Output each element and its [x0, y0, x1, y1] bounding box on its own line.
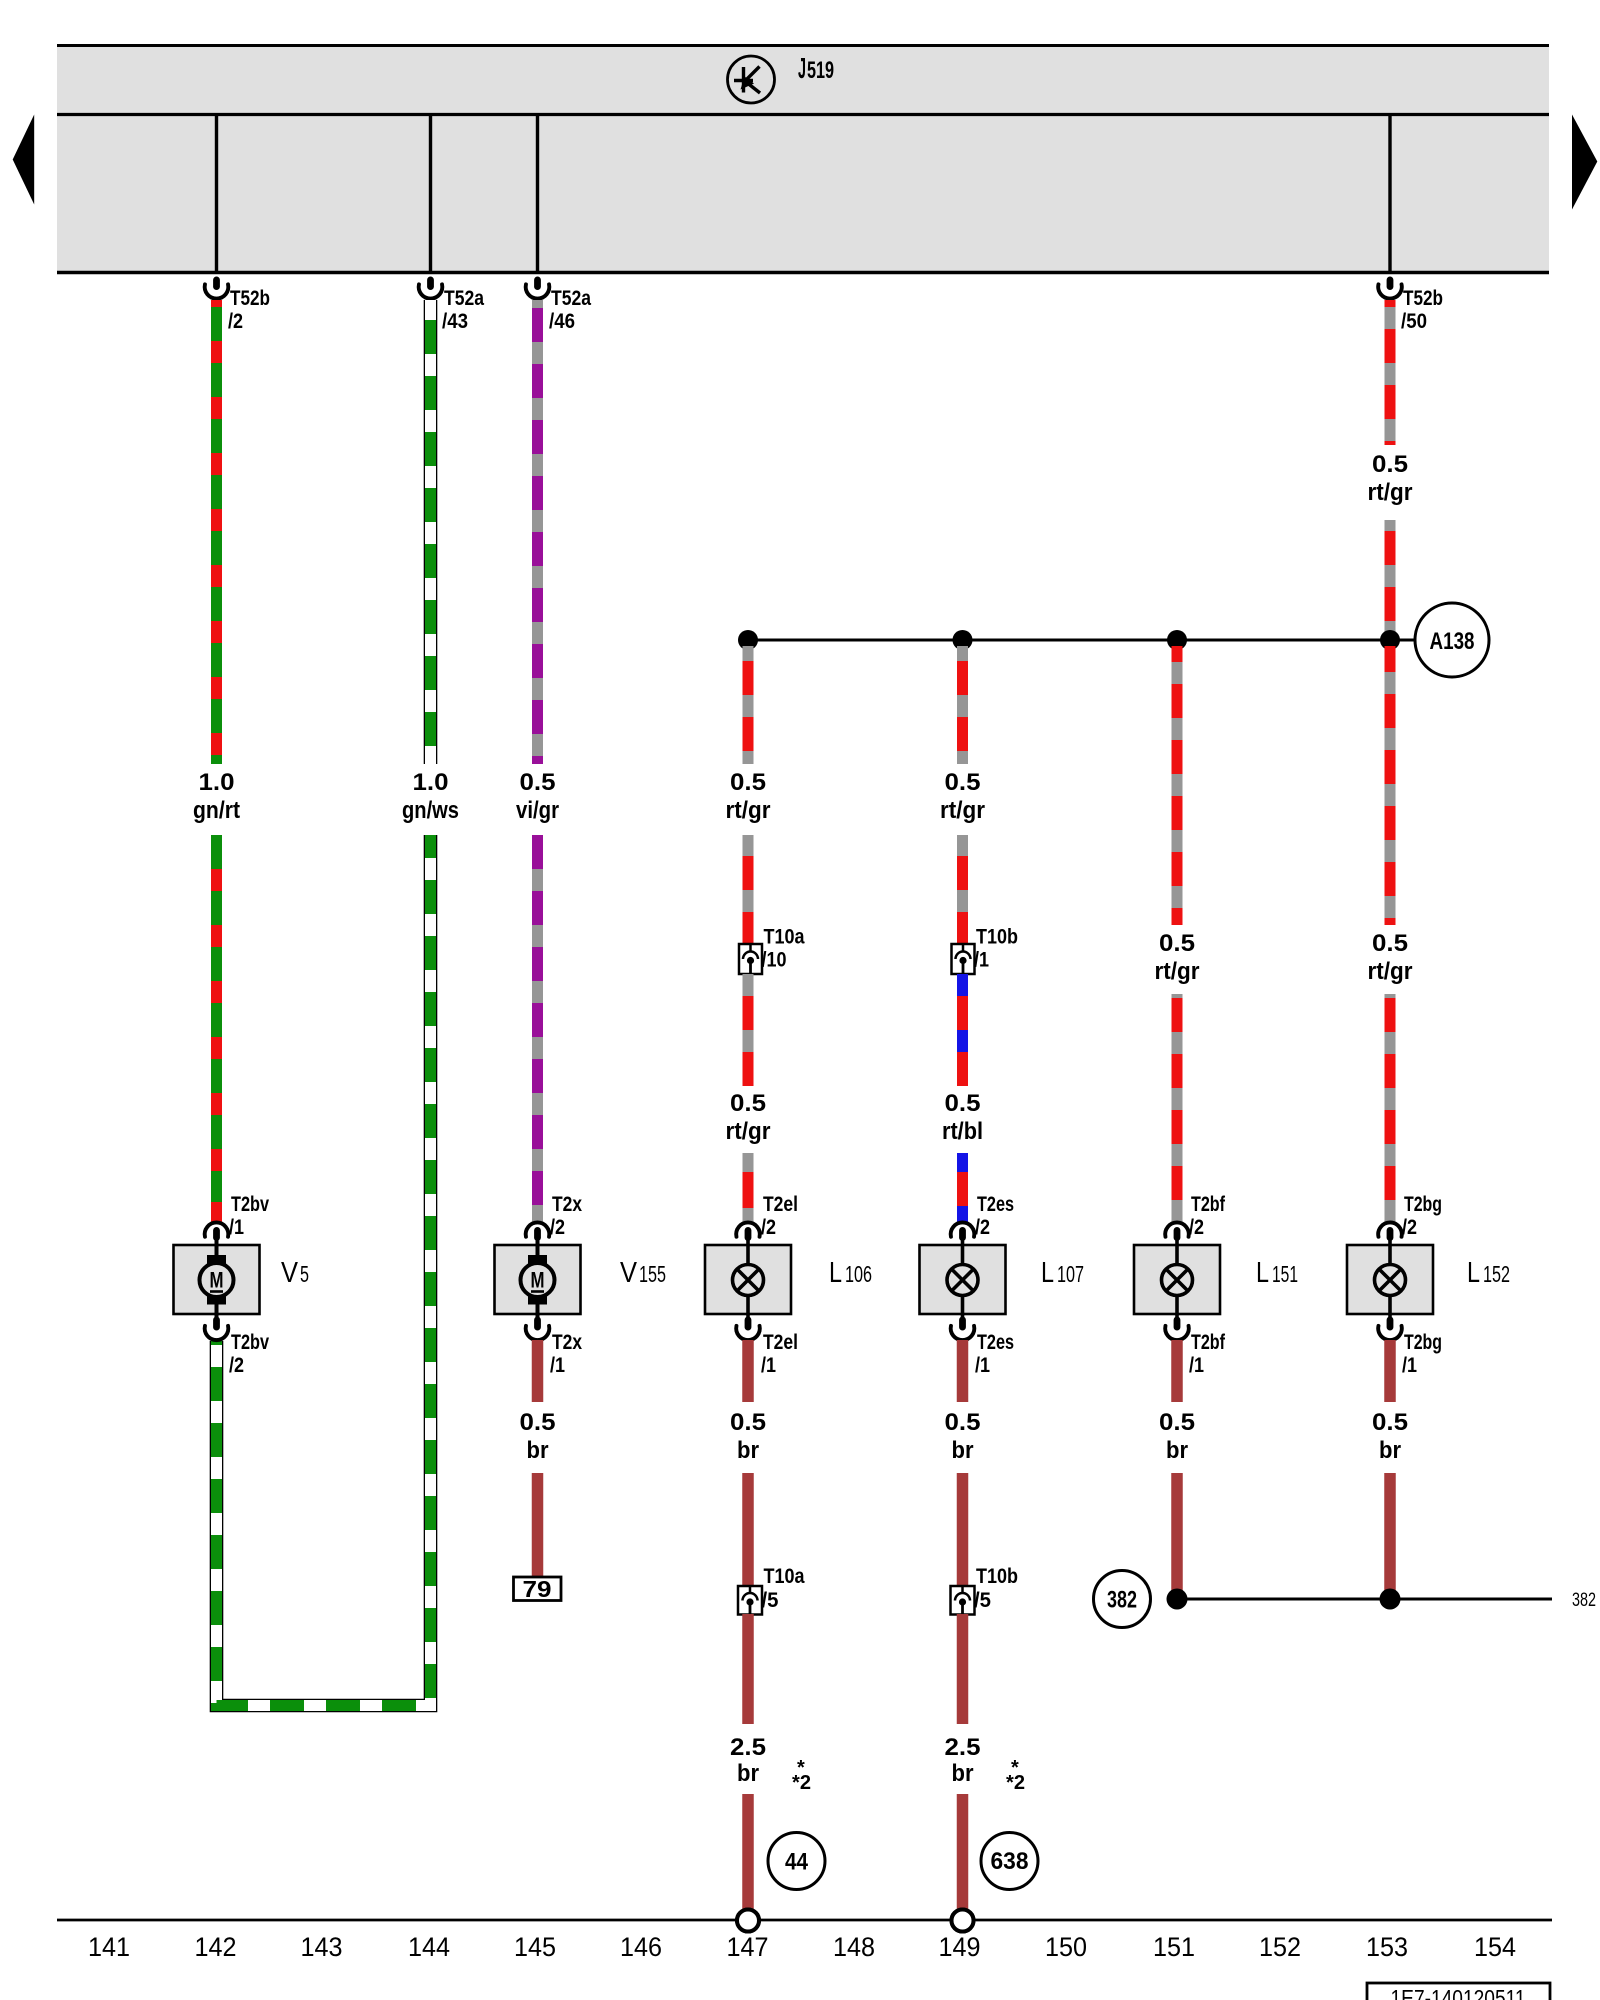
ground reference circle 638 [981, 1833, 1038, 1890]
svg-text:79: 79 [523, 1576, 552, 1602]
open terminal circle (col 147) overlay [737, 1910, 759, 1932]
wire inside band to T52b/50 [1388, 116, 1391, 273]
continuation arrow right [1572, 115, 1597, 210]
svg-text:br: br [527, 1437, 549, 1464]
wire br T10a down (col 147) [742, 1614, 754, 1724]
svg-text:148: 148 [833, 1932, 875, 1962]
svg-text:T2x: T2x [552, 1193, 582, 1216]
open terminal circle (col 147) [737, 1910, 759, 1932]
svg-text:L: L [1041, 1257, 1054, 1289]
svg-text:A138: A138 [1430, 628, 1475, 655]
svg-text:0.5: 0.5 [1159, 930, 1195, 957]
junction col 151 [1167, 630, 1187, 650]
terminal 79 box [514, 1576, 562, 1602]
connector T52a/46 pin [534, 277, 541, 291]
svg-text:151: 151 [1153, 1932, 1195, 1962]
svg-text:rt/gr: rt/gr [1368, 958, 1413, 985]
J519 circle symbol [728, 56, 775, 103]
svg-text:382: 382 [1572, 1590, 1596, 1611]
svg-text:T2el: T2el [763, 1331, 798, 1354]
lamp L152 [1347, 1222, 1433, 1340]
svg-text:/5: /5 [762, 1589, 779, 1612]
wire vi/gr upper segment (col 145) [532, 300, 543, 764]
svg-text:T10a: T10a [764, 926, 805, 949]
svg-text:/46: /46 [549, 310, 575, 333]
wire rt/gr T10a to label (col 147) [743, 974, 754, 1086]
svg-text:V: V [281, 1257, 299, 1289]
svg-text:0.5: 0.5 [730, 1090, 766, 1117]
inline connector T10a/5 [738, 1586, 762, 1615]
svg-text:142: 142 [195, 1932, 237, 1962]
svg-text:/2: /2 [229, 1354, 244, 1377]
svg-text:/2: /2 [1189, 1216, 1204, 1239]
svg-text:143: 143 [301, 1932, 343, 1962]
junction col 147 [738, 630, 758, 650]
svg-text:T2bv: T2bv [231, 1193, 269, 1216]
wire rt/gr node to label (col 149) [957, 646, 968, 764]
continuation arrow left [13, 115, 35, 205]
connector T52a/46 socket [526, 284, 550, 298]
svg-text:/10: /10 [762, 949, 787, 972]
junction col 153 [1380, 630, 1400, 650]
wire inside band to T52a/43 [429, 116, 432, 273]
svg-text:0.5: 0.5 [520, 769, 556, 796]
svg-text:/2: /2 [761, 1216, 776, 1239]
wire inside band to T52b/2 [215, 116, 218, 273]
svg-text:1E7-140120511: 1E7-140120511 [1391, 1985, 1526, 2000]
svg-text:br: br [1379, 1437, 1401, 1464]
svg-text:L: L [1467, 1257, 1480, 1289]
svg-text:rt/gr: rt/gr [726, 797, 771, 824]
svg-text:151: 151 [1272, 1261, 1298, 1287]
svg-text:152: 152 [1483, 1261, 1510, 1287]
svg-text:/1: /1 [1402, 1354, 1417, 1377]
svg-text:144: 144 [408, 1932, 450, 1962]
wire rt/gr label to L151 (col 151) [1172, 994, 1183, 1222]
svg-text:T52b: T52b [230, 287, 270, 310]
wire br V155 lower (col 145) [532, 1473, 544, 1578]
svg-text:/2: /2 [1402, 1216, 1417, 1239]
wire br L152 to node 382 (col 153) [1384, 1473, 1396, 1594]
wire rt/gr node to label (col 147) [743, 646, 754, 764]
inline connector T10b/5 [951, 1586, 975, 1615]
svg-text:T10b: T10b [976, 926, 1018, 949]
svg-text:T2bf: T2bf [1191, 1193, 1226, 1216]
node label A138 [1415, 603, 1489, 677]
wire gn/rt lower segment (col 142) [211, 835, 222, 1222]
svg-text:/1: /1 [229, 1216, 244, 1239]
connector T52b/50 pin [1387, 277, 1394, 291]
svg-text:T2bf: T2bf [1191, 1331, 1226, 1354]
svg-text:155: 155 [639, 1261, 666, 1287]
svg-text:106: 106 [845, 1261, 872, 1287]
svg-text:519: 519 [807, 57, 834, 84]
ground reference circle 44 [768, 1833, 825, 1890]
svg-text:T2es: T2es [977, 1331, 1014, 1354]
wire br to ground 638 (col 149) [957, 1794, 969, 1909]
svg-text:153: 153 [1366, 1932, 1408, 1962]
svg-text:/2: /2 [550, 1216, 565, 1239]
svg-text:0.5: 0.5 [945, 1090, 981, 1117]
svg-text:638: 638 [991, 1848, 1029, 1875]
svg-text:rt/gr: rt/gr [1155, 958, 1200, 985]
svg-text:T10b: T10b [976, 1565, 1018, 1588]
svg-text:T10a: T10a [764, 1565, 805, 1588]
svg-text:1.0: 1.0 [199, 769, 235, 796]
motor V5 [174, 1222, 260, 1340]
svg-text:T52a: T52a [551, 287, 591, 310]
svg-text:/1: /1 [550, 1354, 565, 1377]
svg-text:0.5: 0.5 [945, 769, 981, 796]
connector T52b/2 socket [205, 284, 229, 298]
wire rt/gr segment to node (col 153) [1385, 520, 1396, 640]
junction br col 153 [1380, 1589, 1401, 1610]
svg-text:M: M [210, 1268, 224, 1293]
open terminal circle (col 149) [952, 1910, 974, 1932]
open terminal circle (col 149) overlay [952, 1910, 974, 1932]
junction col 149 [953, 630, 973, 650]
svg-text:V: V [620, 1257, 638, 1289]
bottom rule [57, 1919, 1552, 1922]
wire gn/ws loop (col 144 / V5 return) [217, 300, 431, 1706]
svg-text:107: 107 [1057, 1261, 1084, 1287]
wire rt/bl T10b to label (col 149) [957, 974, 968, 1086]
svg-text:0.5: 0.5 [1159, 1409, 1195, 1436]
drawing number box [1367, 1983, 1550, 2000]
ground reference circle 382 [1094, 1571, 1151, 1628]
wire br L106 to T10a (col 147) [742, 1473, 754, 1586]
wire br to ground 44 (col 147) [742, 1794, 754, 1909]
wire br V155 upper (col 145) [532, 1340, 544, 1402]
motor V155 [495, 1222, 581, 1340]
svg-text:M: M [531, 1268, 545, 1293]
lamp L107 [920, 1222, 1006, 1340]
svg-text:382: 382 [1107, 1587, 1137, 1614]
svg-text:/1: /1 [1189, 1354, 1204, 1377]
svg-text:*2: *2 [1006, 1772, 1025, 1794]
lamp L106 [705, 1222, 791, 1340]
svg-text:br: br [952, 1437, 974, 1464]
wire rt/gr label to T10b (col 149) [957, 835, 968, 944]
svg-text:/43: /43 [442, 310, 468, 333]
svg-text:T2es: T2es [977, 1193, 1014, 1216]
wire vi/gr lower segment (col 145) [532, 835, 543, 1222]
svg-text:T2el: T2el [763, 1193, 798, 1216]
svg-text:br: br [737, 1760, 759, 1787]
wire rt/gr label to L152 (col 153) [1385, 994, 1396, 1222]
svg-text:br: br [952, 1760, 974, 1787]
svg-text:T52a: T52a [444, 287, 484, 310]
wire inside band to T52a/46 [536, 116, 539, 273]
inline connector T10a/10 [739, 944, 762, 974]
label 1.0 gn/ws [398, 764, 463, 835]
svg-text:L: L [829, 1257, 842, 1289]
svg-text:150: 150 [1045, 1932, 1087, 1962]
svg-text:2.5: 2.5 [945, 1734, 981, 1761]
wire br L152 upper (col 153) [1384, 1340, 1396, 1402]
svg-text:*2: *2 [792, 1772, 811, 1794]
wire rt/gr node down (col 153) [1385, 646, 1396, 925]
svg-text:145: 145 [514, 1932, 556, 1962]
svg-text:rt/gr: rt/gr [1368, 479, 1413, 506]
svg-text:/50: /50 [1401, 310, 1427, 333]
svg-text:/5: /5 [974, 1589, 991, 1612]
lamp L151 [1134, 1222, 1220, 1340]
svg-text:0.5: 0.5 [1372, 930, 1408, 957]
svg-text:T2bv: T2bv [231, 1331, 269, 1354]
svg-text:0.5: 0.5 [945, 1409, 981, 1436]
wire rt/gr label to T10a (col 147) [743, 835, 754, 944]
wire rt/bl label to L107 (col 149) [957, 1153, 968, 1222]
junction br col 151 [1167, 1589, 1188, 1610]
svg-text:141: 141 [88, 1932, 130, 1962]
wire br L151 to node 382 (col 151) [1171, 1473, 1183, 1594]
wire gn/rt upper segment (col 142) [211, 300, 222, 764]
connector T52a/43 pin [427, 277, 434, 291]
svg-text:rt/bl: rt/bl [942, 1118, 983, 1145]
inline connector T10b/1 [952, 944, 975, 974]
wire rt/gr label to L106 (col 147) [743, 1153, 754, 1222]
svg-text:0.5: 0.5 [730, 1409, 766, 1436]
svg-text:0.5: 0.5 [730, 769, 766, 796]
svg-text:0.5: 0.5 [1372, 451, 1408, 478]
svg-text:/2: /2 [228, 310, 243, 333]
svg-text:2.5: 2.5 [730, 1734, 766, 1761]
svg-text:/2: /2 [975, 1216, 990, 1239]
svg-text:154: 154 [1474, 1932, 1516, 1962]
wire rt/gr from band to node A (col 153) [1385, 300, 1396, 445]
svg-text:1.0: 1.0 [413, 769, 449, 796]
wire br L107 upper (col 149) [957, 1340, 969, 1402]
connector T52b/50 socket [1378, 284, 1402, 298]
connector T52a/43 socket [419, 284, 443, 298]
svg-text:gn/rt: gn/rt [193, 797, 240, 824]
svg-text:5: 5 [300, 1261, 309, 1287]
connector T52b/2 pin [213, 277, 220, 291]
svg-text:/1: /1 [974, 949, 989, 972]
svg-text:147: 147 [727, 1932, 769, 1962]
node wire A138 (horizontal) [748, 639, 1415, 642]
wire rt/gr node to label (col 151) [1172, 646, 1183, 925]
wire br T10b down (col 149) [957, 1614, 969, 1724]
svg-text:/1: /1 [761, 1354, 776, 1377]
control unit J519 bus band [57, 45, 1549, 273]
svg-text:rt/gr: rt/gr [940, 797, 985, 824]
svg-text:/1: /1 [975, 1354, 990, 1377]
svg-text:T52b: T52b [1403, 287, 1443, 310]
svg-text:T2x: T2x [552, 1331, 582, 1354]
svg-text:L: L [1256, 1257, 1269, 1289]
wire br L106 upper (col 147) [742, 1340, 754, 1402]
svg-text:J: J [798, 53, 806, 85]
svg-text:vi/gr: vi/gr [516, 797, 559, 824]
svg-text:0.5: 0.5 [520, 1409, 556, 1436]
svg-text:152: 152 [1259, 1932, 1301, 1962]
svg-text:T2bg: T2bg [1404, 1331, 1442, 1354]
svg-text:149: 149 [939, 1932, 981, 1962]
svg-text:0.5: 0.5 [1372, 1409, 1408, 1436]
svg-text:146: 146 [620, 1932, 662, 1962]
svg-text:gn/ws: gn/ws [402, 797, 459, 824]
svg-text:rt/gr: rt/gr [726, 1118, 771, 1145]
ground wire 382 (horizontal) [1177, 1598, 1552, 1601]
wire br L151 upper (col 151) [1171, 1340, 1183, 1402]
svg-text:T2bg: T2bg [1404, 1193, 1442, 1216]
svg-text:br: br [737, 1437, 759, 1464]
wire br L107 to T10b (col 149) [957, 1473, 969, 1586]
svg-text:44: 44 [785, 1849, 809, 1876]
svg-text:br: br [1166, 1437, 1188, 1464]
